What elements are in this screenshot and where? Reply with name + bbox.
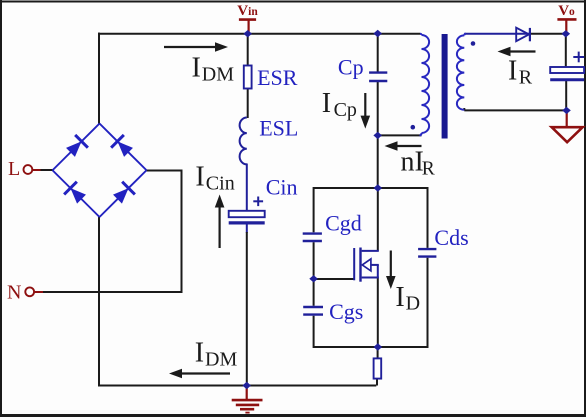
svg-text:Vin: Vin [237,3,258,19]
svg-text:I: I [195,337,204,368]
svg-text:I: I [395,282,404,313]
svg-text:ESL: ESL [259,116,298,141]
svg-text:Cgd: Cgd [325,210,362,235]
svg-text:Cds: Cds [434,225,468,250]
svg-text:I: I [192,53,201,84]
svg-text:DM: DM [202,64,234,86]
svg-text:N: N [7,282,21,304]
svg-text:Cin: Cin [266,175,298,200]
svg-text:Vo: Vo [558,3,575,19]
svg-text:Cp: Cp [334,99,357,121]
svg-text:Cin: Cin [206,173,235,195]
svg-text:Cgs: Cgs [329,299,363,324]
svg-text:Cp: Cp [338,55,364,80]
svg-text:DM: DM [205,349,237,371]
svg-text:ESR: ESR [257,65,298,90]
svg-text:nI: nI [401,146,424,177]
svg-text:D: D [406,292,420,314]
svg-text:R: R [422,158,435,179]
svg-text:I: I [322,88,331,119]
svg-text:I: I [508,55,517,86]
svg-text:R: R [519,66,533,88]
svg-text:I: I [195,162,204,193]
svg-text:L: L [8,158,20,180]
